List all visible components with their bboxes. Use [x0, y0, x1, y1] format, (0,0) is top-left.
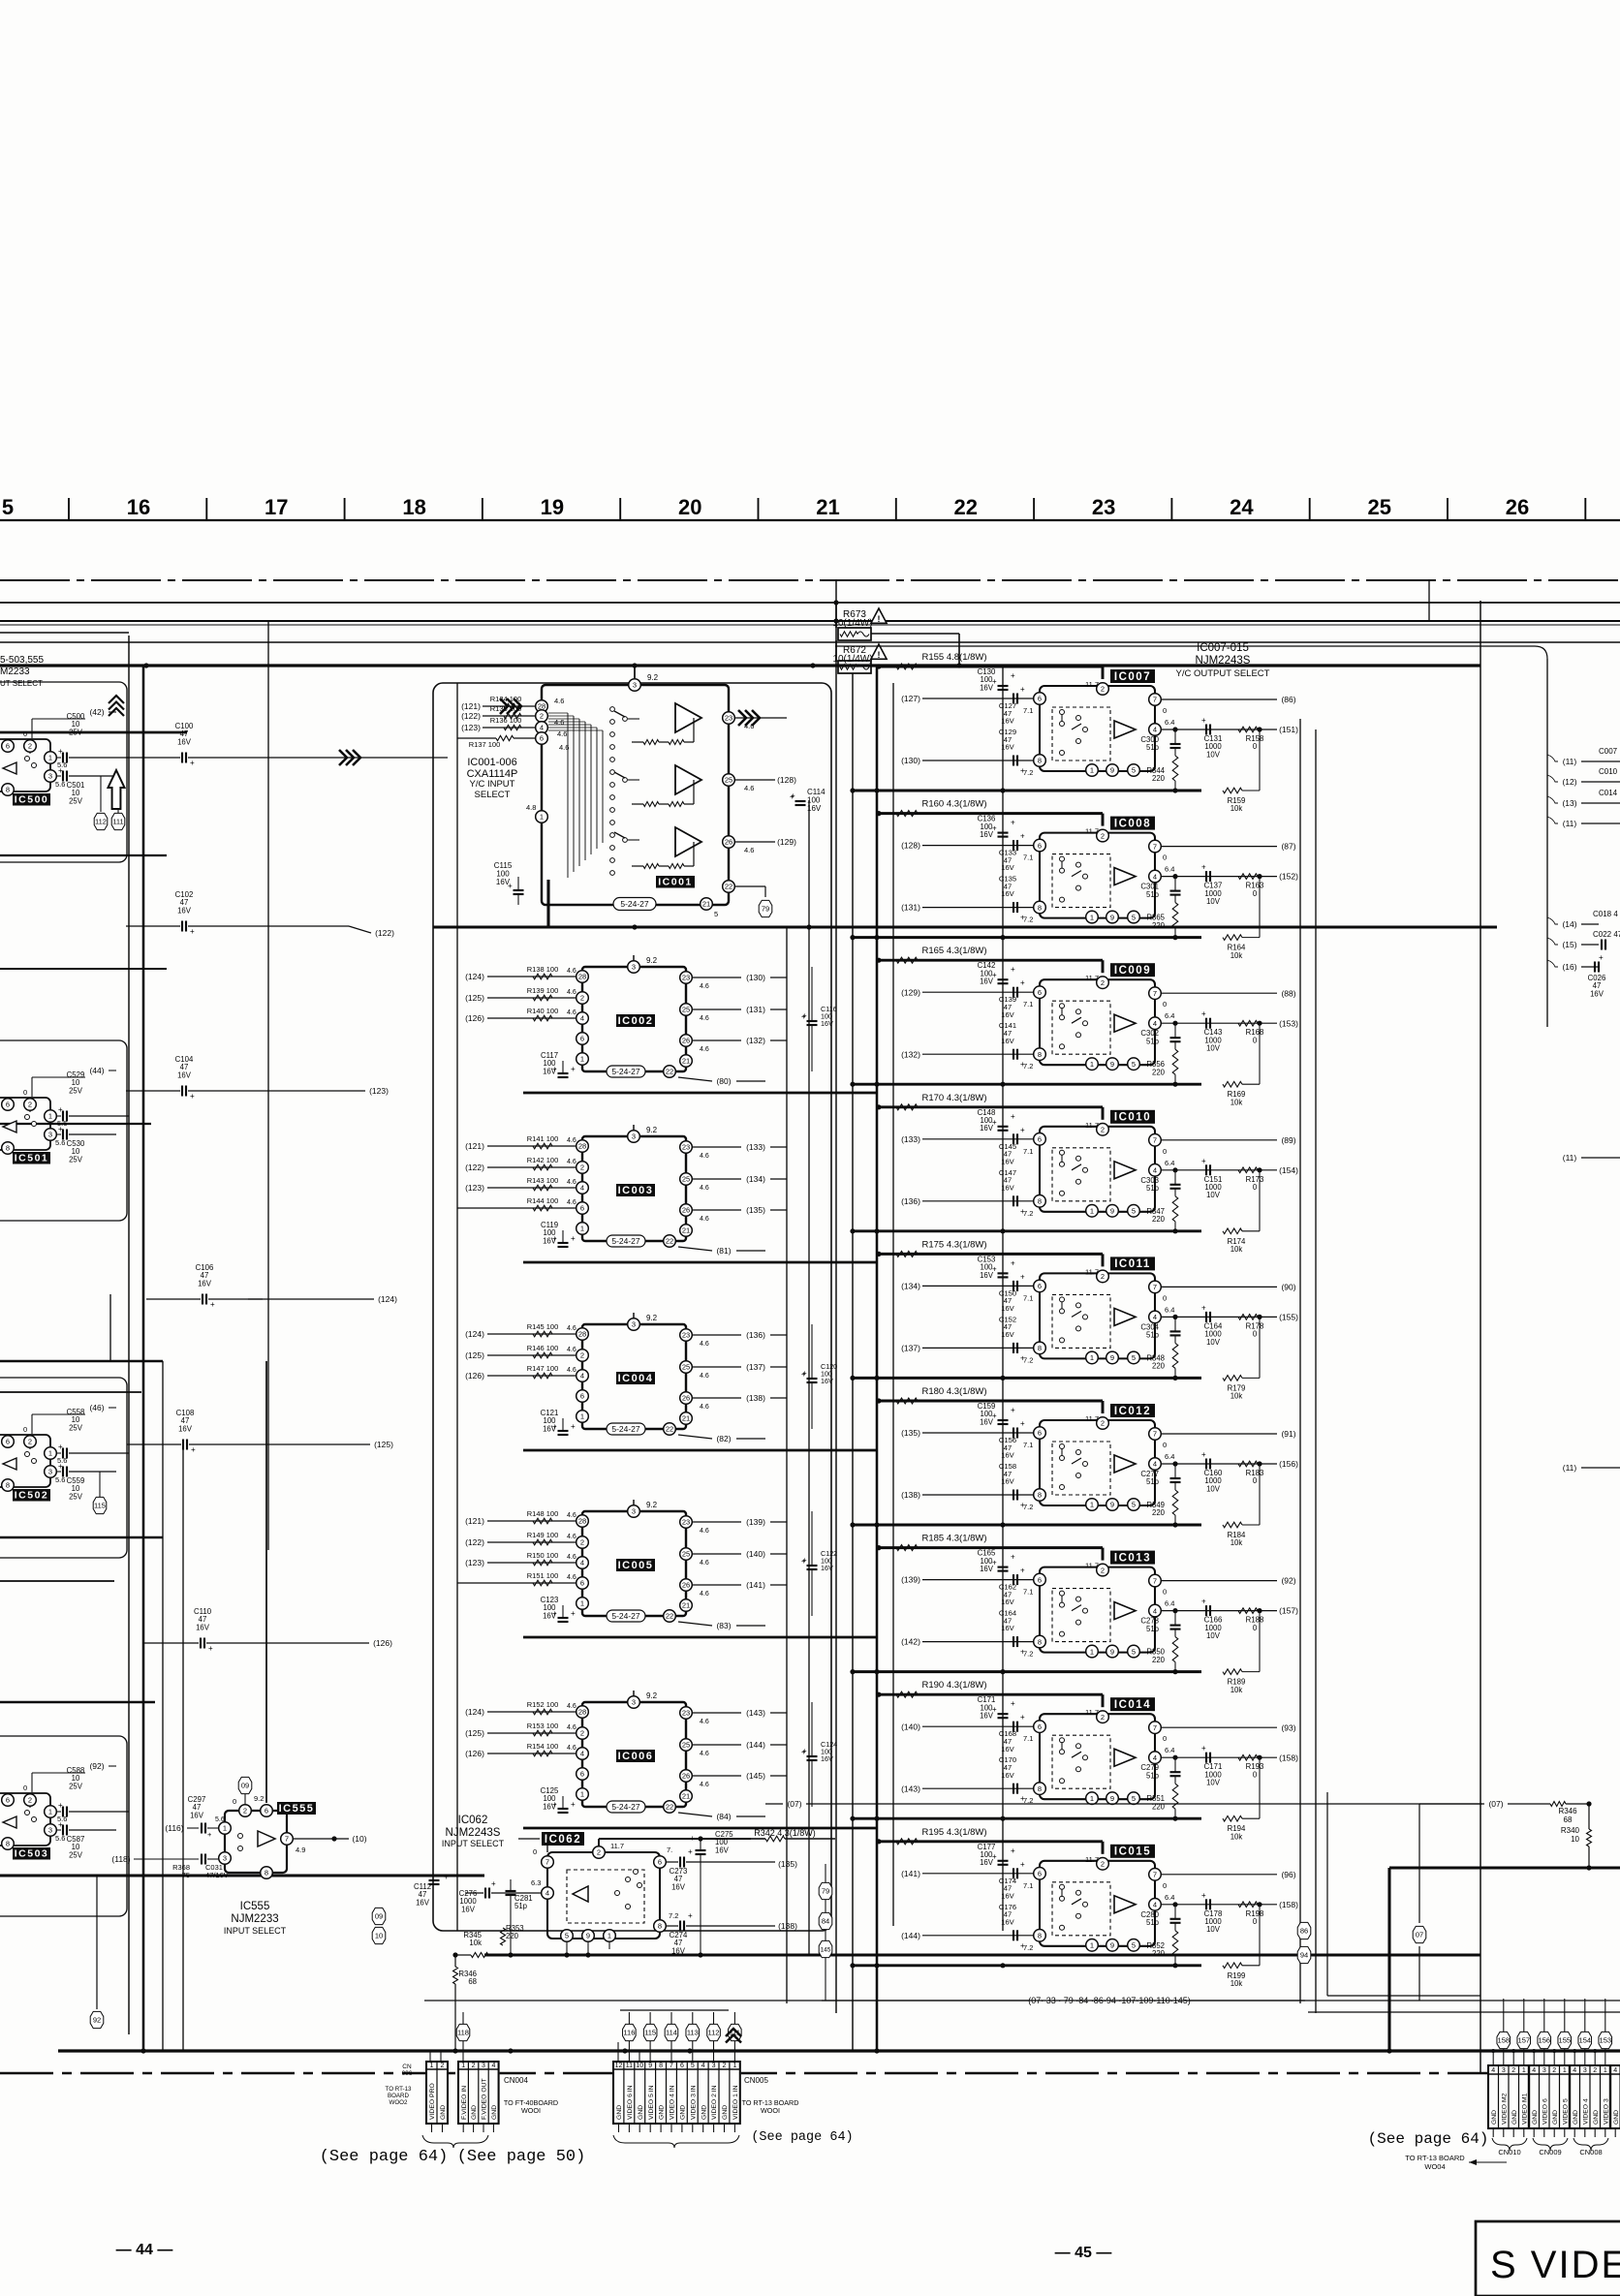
svg-text:16V: 16V [1001, 717, 1014, 726]
svg-text:6: 6 [1038, 1429, 1042, 1438]
svg-text:R165 4.3(1/8W): R165 4.3(1/8W) [921, 946, 986, 956]
svg-text:+: + [1020, 1272, 1025, 1281]
svg-text:9: 9 [1110, 1501, 1114, 1509]
svg-text:51p: 51p [1146, 1477, 1160, 1486]
svg-text:(124): (124) [465, 972, 484, 981]
svg-text:4.6: 4.6 [700, 1528, 709, 1535]
svg-text:C014: C014 [1599, 789, 1618, 797]
svg-text:(125): (125) [465, 993, 484, 1003]
svg-text:6.4: 6.4 [1165, 1746, 1174, 1754]
svg-text:10k: 10k [1231, 1245, 1243, 1254]
svg-text:220: 220 [1152, 774, 1166, 783]
svg-text:R137 100: R137 100 [469, 740, 501, 749]
svg-text:16V: 16V [1001, 1010, 1014, 1019]
svg-text:006: 006 [402, 2070, 413, 2077]
svg-text:(93): (93) [1281, 1722, 1295, 1732]
svg-text:+: + [1020, 1060, 1025, 1069]
svg-text:5: 5 [691, 2063, 695, 2069]
svg-text:6.4: 6.4 [1165, 718, 1174, 727]
svg-text:5: 5 [2, 495, 14, 519]
svg-text:4: 4 [1153, 1019, 1157, 1028]
svg-text:5: 5 [1132, 1647, 1136, 1656]
svg-text:6: 6 [1038, 1722, 1042, 1731]
svg-text:(91): (91) [1281, 1429, 1295, 1439]
svg-text:92: 92 [93, 2016, 101, 2025]
svg-text:2: 2 [472, 2063, 476, 2069]
svg-text:4.6: 4.6 [700, 1216, 709, 1223]
svg-text:1: 1 [1090, 1501, 1094, 1509]
svg-text:2: 2 [28, 1438, 32, 1446]
svg-text:7.1: 7.1 [1023, 1441, 1033, 1449]
svg-text:25V: 25V [69, 1423, 83, 1432]
svg-text:7: 7 [1153, 1430, 1157, 1439]
svg-text:6: 6 [1038, 695, 1042, 703]
svg-text:(138): (138) [901, 1490, 920, 1500]
svg-text:28: 28 [578, 1517, 586, 1526]
svg-text:1: 1 [540, 813, 544, 822]
svg-text:6.3: 6.3 [531, 1878, 541, 1887]
svg-text:4.6: 4.6 [700, 1185, 709, 1192]
svg-text:VIDEO M2: VIDEO M2 [1501, 2093, 1508, 2125]
svg-text:NJM2243S: NJM2243S [446, 1827, 501, 1839]
svg-text:(130): (130) [901, 756, 920, 765]
svg-text:10: 10 [636, 2063, 643, 2069]
svg-text:23: 23 [1092, 495, 1115, 519]
svg-text:114: 114 [666, 2029, 677, 2037]
svg-text:7: 7 [285, 1835, 289, 1844]
svg-text:(143): (143) [746, 1708, 765, 1718]
svg-text:+: + [1201, 1009, 1206, 1018]
svg-text:1: 1 [732, 2063, 736, 2069]
svg-text:7: 7 [545, 1858, 549, 1867]
svg-text:220: 220 [1152, 1656, 1166, 1664]
svg-text:1: 1 [580, 1055, 584, 1064]
svg-text:8: 8 [1038, 1344, 1042, 1352]
svg-text:IC062: IC062 [458, 1815, 488, 1826]
svg-text:VIDEO 3 IN: VIDEO 3 IN [690, 2085, 697, 2120]
svg-text:4.9: 4.9 [296, 1846, 305, 1854]
svg-text:116: 116 [623, 2029, 635, 2037]
svg-text:GND: GND [1593, 2110, 1600, 2125]
svg-text:28: 28 [578, 973, 586, 981]
svg-text:0: 0 [1163, 1147, 1167, 1156]
svg-text:R140 100: R140 100 [527, 1007, 559, 1015]
svg-text:157: 157 [1518, 2036, 1531, 2045]
svg-text:16V: 16V [177, 737, 192, 746]
svg-text:(123): (123) [369, 1086, 389, 1096]
svg-text:11.7: 11.7 [1085, 1267, 1099, 1276]
svg-text:UT SELECT: UT SELECT [0, 679, 43, 688]
svg-text:1: 1 [580, 1412, 584, 1421]
svg-text:WOOI: WOOI [521, 2106, 541, 2115]
svg-text:6: 6 [658, 1858, 662, 1867]
svg-text:12: 12 [615, 2063, 623, 2069]
svg-text:2: 2 [580, 1164, 584, 1172]
svg-text:4: 4 [491, 2063, 495, 2069]
svg-text:16V: 16V [1001, 1451, 1014, 1460]
svg-text:6: 6 [1038, 1135, 1042, 1144]
svg-text:Y/C INPUT: Y/C INPUT [470, 779, 515, 790]
svg-text:6: 6 [1038, 988, 1042, 997]
svg-text:4.8: 4.8 [526, 803, 536, 812]
svg-text:7: 7 [1153, 1136, 1157, 1145]
svg-text:16V: 16V [1001, 1157, 1014, 1165]
svg-text:GND: GND [440, 2105, 447, 2120]
svg-text:51p: 51p [1146, 1184, 1160, 1193]
svg-text:28: 28 [578, 1330, 586, 1339]
svg-text:4: 4 [1153, 1166, 1157, 1175]
svg-text:(157): (157) [1279, 1606, 1298, 1616]
svg-text:51p: 51p [1146, 1037, 1160, 1045]
svg-text:7: 7 [1153, 1871, 1157, 1879]
svg-text:158: 158 [1498, 2036, 1511, 2045]
svg-text:11.7: 11.7 [1085, 1708, 1099, 1717]
svg-text:145: 145 [821, 1946, 831, 1953]
svg-text:GND: GND [1552, 2110, 1559, 2125]
svg-text:IC501: IC501 [15, 1152, 49, 1164]
svg-text:6: 6 [580, 1770, 584, 1779]
svg-text:5-24-27: 5-24-27 [611, 1424, 640, 1434]
svg-text:1: 1 [1090, 913, 1094, 921]
svg-text:4: 4 [1153, 1606, 1157, 1615]
svg-text:+: + [1201, 1744, 1206, 1753]
svg-text:2: 2 [441, 2063, 445, 2069]
svg-text:3: 3 [632, 1132, 636, 1141]
svg-text:1: 1 [48, 1808, 52, 1816]
svg-text:25V: 25V [69, 1086, 83, 1095]
svg-text:94: 94 [1300, 1951, 1308, 1960]
svg-text:4: 4 [580, 1014, 584, 1023]
svg-text:BOARD: BOARD [388, 2093, 410, 2099]
svg-text:79: 79 [762, 905, 769, 914]
svg-text:CN008: CN008 [1579, 2148, 1602, 2156]
svg-text:+: + [444, 1873, 449, 1881]
svg-text:WOO2: WOO2 [389, 2099, 408, 2106]
svg-text:4: 4 [580, 1372, 584, 1381]
svg-text:16V: 16V [715, 1846, 730, 1854]
svg-text:22: 22 [666, 1803, 673, 1812]
svg-text:C007: C007 [1599, 747, 1618, 756]
svg-text:5-503,555: 5-503,555 [0, 655, 44, 666]
svg-text:3: 3 [48, 1131, 52, 1139]
svg-text:1: 1 [1090, 1353, 1094, 1362]
svg-text:2: 2 [28, 742, 32, 751]
svg-text:(92): (92) [1281, 1576, 1295, 1586]
svg-text:0: 0 [1163, 853, 1167, 862]
svg-text:21: 21 [816, 495, 839, 519]
svg-text:(123): (123) [461, 723, 481, 732]
svg-text:5: 5 [1132, 1501, 1136, 1509]
svg-text:3: 3 [632, 1507, 636, 1516]
svg-text:!: ! [878, 614, 881, 624]
svg-text:7: 7 [1153, 1723, 1157, 1732]
svg-text:(07): (07) [1488, 1799, 1503, 1809]
svg-text:CN009: CN009 [1539, 2148, 1561, 2156]
svg-text:8: 8 [6, 786, 10, 794]
svg-text:2: 2 [580, 994, 584, 1003]
svg-text:11.7: 11.7 [1085, 680, 1099, 689]
svg-text:(83): (83) [716, 1621, 731, 1630]
svg-text:5: 5 [714, 910, 718, 918]
svg-text:3: 3 [632, 1320, 636, 1329]
svg-text:79: 79 [822, 1887, 829, 1896]
svg-text:0: 0 [1163, 1588, 1167, 1597]
svg-text:3: 3 [48, 772, 52, 781]
svg-text:11: 11 [626, 2063, 633, 2069]
svg-text:(131): (131) [901, 903, 920, 913]
svg-text:7: 7 [1153, 1283, 1157, 1291]
svg-text:+: + [1020, 1794, 1025, 1803]
svg-text:8: 8 [1038, 757, 1042, 765]
svg-text:R150 100: R150 100 [527, 1551, 559, 1560]
svg-text:4.6: 4.6 [744, 722, 754, 730]
svg-text:(127): (127) [901, 694, 920, 703]
svg-text:2: 2 [580, 1351, 584, 1360]
svg-text:3: 3 [632, 963, 636, 972]
svg-text:8: 8 [658, 1922, 662, 1931]
svg-text:4: 4 [580, 1750, 584, 1758]
svg-text:51p: 51p [1146, 1771, 1160, 1780]
svg-text:4.6: 4.6 [567, 1724, 576, 1731]
svg-text:F.VIDEO OUT: F.VIDEO OUT [482, 2078, 488, 2120]
svg-text:10k: 10k [1231, 804, 1243, 813]
svg-text:R160 4.3(1/8W): R160 4.3(1/8W) [921, 799, 986, 810]
svg-text:0: 0 [1163, 1881, 1167, 1890]
svg-text:IC014: IC014 [1114, 1699, 1151, 1711]
svg-text:+: + [552, 1065, 557, 1073]
svg-text:!: ! [878, 650, 881, 660]
svg-text:0: 0 [533, 1847, 537, 1856]
svg-text:IC005: IC005 [618, 1560, 654, 1571]
svg-text:4.6: 4.6 [567, 1325, 576, 1332]
svg-text:(126): (126) [465, 1013, 484, 1023]
svg-text:8: 8 [265, 1869, 268, 1877]
svg-text:VIDEO 4: VIDEO 4 [1582, 2098, 1589, 2125]
svg-text:4: 4 [1153, 1460, 1157, 1469]
svg-text:(143): (143) [901, 1784, 920, 1793]
svg-text:25V: 25V [69, 1492, 83, 1501]
svg-text:10V: 10V [1206, 897, 1221, 906]
svg-text:VIDEO 2 IN: VIDEO 2 IN [711, 2085, 718, 2120]
svg-text:+: + [58, 1462, 63, 1471]
svg-text:+: + [208, 1644, 213, 1653]
svg-text:(123): (123) [465, 1183, 484, 1193]
svg-text:WO04: WO04 [1424, 2162, 1445, 2171]
svg-text:3: 3 [1502, 2067, 1506, 2074]
svg-text:9.2: 9.2 [646, 1691, 658, 1700]
svg-text:R148 100: R148 100 [527, 1509, 559, 1518]
svg-text:220: 220 [1152, 1362, 1166, 1371]
svg-text:(138): (138) [746, 1393, 765, 1403]
svg-text:4.6: 4.6 [567, 1179, 576, 1186]
svg-text:6.4: 6.4 [1165, 1893, 1174, 1902]
svg-text:+: + [1020, 1713, 1025, 1722]
svg-text:22: 22 [725, 883, 732, 891]
svg-text:(90): (90) [1281, 1283, 1295, 1292]
svg-text:(130): (130) [746, 973, 765, 982]
svg-text:16V: 16V [671, 1882, 686, 1891]
svg-text:+: + [552, 1422, 557, 1431]
svg-text:1: 1 [223, 1824, 227, 1833]
svg-text:11.7: 11.7 [610, 1842, 624, 1850]
svg-text:8: 8 [6, 1481, 10, 1490]
svg-text:IC008: IC008 [1114, 818, 1151, 829]
svg-text:16V: 16V [821, 1754, 833, 1763]
svg-text:(82): (82) [716, 1434, 731, 1443]
svg-text:R139 100: R139 100 [527, 986, 559, 995]
svg-text:2: 2 [1511, 2067, 1515, 2074]
svg-text:9: 9 [1110, 913, 1114, 921]
svg-text:28: 28 [578, 1708, 586, 1717]
svg-text:(135): (135) [746, 1205, 765, 1215]
svg-text:118: 118 [457, 2029, 469, 2037]
svg-text:16V: 16V [1001, 743, 1014, 752]
svg-text:10k: 10k [1231, 1979, 1243, 1988]
svg-text:(137): (137) [901, 1344, 920, 1353]
svg-text:(122): (122) [461, 711, 481, 721]
svg-text:25: 25 [682, 1741, 690, 1750]
svg-text:16V: 16V [821, 1377, 833, 1385]
svg-text:8: 8 [1038, 1932, 1042, 1940]
svg-text:+: + [552, 1609, 557, 1618]
svg-text:153: 153 [1600, 2036, 1612, 2045]
svg-text:07: 07 [1416, 1931, 1423, 1939]
svg-text:(44): (44) [89, 1066, 104, 1075]
svg-text:16V: 16V [980, 1565, 994, 1573]
svg-text:1: 1 [580, 1790, 584, 1799]
svg-text:IC006: IC006 [618, 1751, 654, 1762]
svg-text:10k: 10k [1231, 1392, 1243, 1401]
svg-text:+: + [571, 1422, 576, 1431]
svg-text:10V: 10V [1206, 750, 1221, 759]
svg-text:1: 1 [1090, 1060, 1094, 1069]
svg-text:GND: GND [701, 2105, 707, 2120]
svg-text:(140): (140) [746, 1549, 765, 1559]
svg-text:(132): (132) [901, 1049, 920, 1059]
svg-text:9: 9 [1110, 766, 1114, 775]
svg-text:16V: 16V [807, 804, 822, 813]
svg-text:4.6: 4.6 [700, 1153, 709, 1160]
svg-text:F.VIDEO IN: F.VIDEO IN [461, 2086, 468, 2120]
svg-text:VIDEO 6 IN: VIDEO 6 IN [627, 2085, 634, 2120]
svg-text:4.6: 4.6 [700, 1751, 709, 1757]
svg-text:6: 6 [540, 734, 544, 743]
svg-text:26: 26 [682, 1581, 690, 1590]
svg-text:R154 100: R154 100 [527, 1742, 559, 1751]
svg-text:+: + [690, 1834, 695, 1843]
svg-text:+: + [1020, 832, 1025, 841]
svg-text:16V: 16V [1001, 1304, 1014, 1313]
svg-text:+: + [571, 1800, 576, 1809]
svg-text:220: 220 [1152, 1215, 1166, 1224]
svg-text:4: 4 [580, 1184, 584, 1193]
svg-text:6: 6 [580, 1204, 584, 1213]
svg-text:16V: 16V [177, 1070, 192, 1079]
svg-text:C022 47.: C022 47. [1593, 930, 1620, 939]
svg-text:(92): (92) [89, 1761, 104, 1771]
svg-text:(125): (125) [465, 1350, 484, 1360]
svg-text:4: 4 [1153, 726, 1157, 734]
svg-text:16V: 16V [1001, 889, 1014, 898]
svg-text:11.7: 11.7 [1085, 1855, 1099, 1864]
svg-text:TO RT-13 BOARD: TO RT-13 BOARD [1405, 2154, 1465, 2162]
svg-text:1: 1 [607, 1932, 611, 1940]
svg-text:113: 113 [687, 2029, 699, 2037]
svg-text:11.7: 11.7 [1085, 1562, 1099, 1570]
svg-text:(11): (11) [1563, 1153, 1577, 1163]
svg-text:1: 1 [1090, 766, 1094, 775]
svg-text:+: + [802, 1747, 807, 1755]
svg-text:+: + [58, 1801, 63, 1810]
svg-text:16V: 16V [980, 1417, 994, 1426]
svg-text:(124): (124) [465, 1329, 484, 1339]
svg-text:5: 5 [565, 1932, 569, 1940]
svg-text:3: 3 [48, 1826, 52, 1835]
svg-text:9: 9 [1110, 1647, 1114, 1656]
svg-text:IC503: IC503 [15, 1847, 49, 1859]
svg-text:+: + [802, 1556, 807, 1565]
svg-text:(138): (138) [778, 1921, 797, 1931]
svg-text:0: 0 [1253, 1476, 1258, 1485]
svg-text:4.6: 4.6 [567, 1159, 576, 1165]
svg-text:7: 7 [1153, 842, 1157, 851]
svg-text:16V: 16V [980, 1858, 994, 1867]
svg-text:23: 23 [725, 714, 732, 723]
svg-text:5: 5 [1132, 913, 1136, 921]
svg-text:4: 4 [1153, 1753, 1157, 1762]
svg-text:(125): (125) [374, 1440, 393, 1449]
svg-text:4: 4 [1532, 2067, 1536, 2074]
svg-text:68: 68 [1564, 1815, 1573, 1824]
svg-text:+: + [1201, 1303, 1206, 1312]
svg-text:(155): (155) [1279, 1313, 1298, 1322]
svg-text:(152): (152) [1279, 872, 1298, 882]
svg-text:+: + [508, 882, 513, 890]
svg-text:0: 0 [1163, 1441, 1167, 1449]
svg-text:21: 21 [702, 900, 710, 909]
svg-text:23: 23 [682, 1709, 690, 1718]
svg-text:220: 220 [1152, 1068, 1166, 1076]
svg-text:GND: GND [1613, 2110, 1620, 2125]
svg-text:6: 6 [580, 1579, 584, 1588]
svg-text:(15): (15) [1562, 940, 1576, 949]
svg-text:+: + [1020, 1648, 1025, 1657]
svg-text:10: 10 [375, 1932, 383, 1940]
svg-text:6: 6 [1038, 841, 1042, 850]
svg-text:16V: 16V [1001, 1037, 1014, 1045]
svg-text:25V: 25V [69, 1155, 83, 1164]
svg-text:7.1: 7.1 [1023, 1588, 1033, 1597]
svg-text:26: 26 [725, 838, 732, 847]
svg-text:16V: 16V [1001, 1745, 1014, 1753]
svg-text:IC062: IC062 [545, 1834, 581, 1846]
svg-text:7.1: 7.1 [1023, 853, 1033, 862]
svg-text:+: + [190, 759, 195, 767]
svg-text:3: 3 [482, 2063, 485, 2069]
svg-text:IC001: IC001 [658, 876, 693, 887]
svg-text:GND: GND [638, 2105, 644, 2120]
svg-text:10k: 10k [1231, 1538, 1243, 1547]
svg-text:8: 8 [1038, 1784, 1042, 1793]
svg-text:6: 6 [6, 1101, 10, 1109]
svg-text:+: + [688, 1847, 693, 1856]
svg-text:IC555: IC555 [279, 1803, 315, 1815]
svg-text:7.1: 7.1 [1023, 1734, 1033, 1743]
svg-text:+: + [1020, 685, 1025, 694]
svg-text:25: 25 [682, 1363, 690, 1372]
svg-text:51p: 51p [1146, 890, 1160, 899]
svg-text:(121): (121) [465, 1141, 484, 1151]
